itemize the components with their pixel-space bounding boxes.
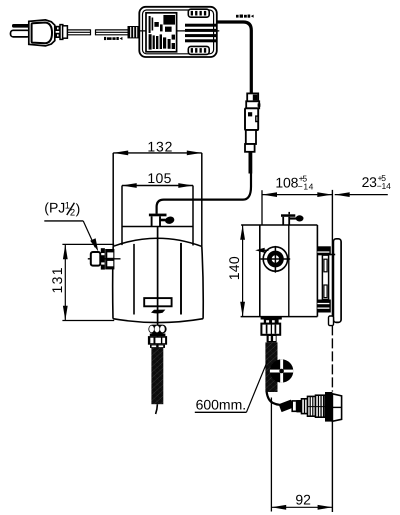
adapter heat fins: [185, 24, 217, 43]
sensor head flange: [325, 392, 332, 422]
svg-text:2: 2: [70, 208, 75, 219]
side gland connector blob: [290, 217, 296, 219]
PJ fitting washer: [101, 248, 105, 269]
front cable gland: [149, 214, 167, 217]
wall line: [331, 190, 333, 326]
power cord segment 2: [96, 29, 129, 35]
inlet flow arrow: [264, 249, 269, 251]
adapter seam line: [139, 30, 219, 32]
output cord marking text: [236, 15, 254, 18]
AC adapter U1 outer shell: [139, 7, 217, 57]
dim 140 line: [242, 225, 244, 317]
svg-text:(PJ: (PJ: [44, 200, 65, 216]
sensor head block 2: [316, 395, 326, 417]
dim 132 arrows: [113, 151, 128, 156]
svg-text:140: 140: [226, 256, 242, 280]
plug cord barrel: [60, 25, 63, 40]
dim 105 arrows: [122, 183, 137, 188]
tank highlight lines: [133, 244, 135, 315]
side body right edge: [316, 225, 318, 317]
adapter label: [146, 13, 177, 52]
AC adapter inner shell line: [143, 10, 214, 54]
dim 23 line: [335, 194, 388, 196]
tank center cable line: [157, 227, 159, 348]
plug P1 bottom prong: [11, 30, 31, 37]
svg-text:105: 105: [147, 170, 171, 186]
cable below connector thick: [248, 152, 252, 174]
svg-text:−14: −14: [377, 181, 391, 191]
tank sides: [112, 246, 115, 318]
tank label plate: [144, 298, 171, 306]
svg-text:23: 23: [362, 174, 378, 190]
plug strain relief ribs: [56, 27, 59, 31]
sensor head rings: [292, 401, 296, 411]
svg-text:132: 132: [147, 138, 172, 154]
outlet lower ring: [150, 345, 165, 348]
front view cover box: [113, 152, 202, 154]
svg-text:): ): [76, 201, 81, 217]
side center line: [270, 317, 272, 342]
inline connector J1: [247, 93, 258, 101]
PJ fitting stub: [91, 252, 101, 266]
adapter top vent: [188, 9, 209, 17]
svg-text:108: 108: [275, 175, 298, 191]
dim 131 extension lines: [62, 243, 114, 245]
side outlet flange: [261, 317, 282, 320]
front view inner bracket box: [122, 185, 193, 187]
tank shoulder curve: [113, 238, 202, 246]
dim 131 line: [64, 244, 66, 320]
front hose tail: [156, 404, 158, 414]
side body top edge: [241, 224, 317, 226]
sensor head cable curve: [267, 392, 280, 405]
label underline: [44, 220, 83, 222]
side outlet threads: [264, 320, 279, 324]
side cable gland: [281, 214, 295, 217]
side outlet coupler: [267, 335, 277, 343]
sensor head tip: [279, 400, 294, 413]
bracket lower bar: [317, 300, 330, 313]
PJ fitting nut: [105, 249, 114, 269]
inlet circle assembly: [263, 247, 287, 271]
side body bottom edge: [241, 316, 318, 318]
svg-text:600mm.: 600mm.: [196, 396, 247, 412]
outlet coupling rings: [148, 325, 166, 334]
power cord segment 1: [67, 29, 90, 35]
outlet hex nut: [148, 336, 167, 345]
bracket strip: [322, 255, 328, 299]
side body left edge: [259, 225, 261, 317]
dim 108 extension line: [261, 190, 263, 225]
wall mounting plate: [333, 239, 341, 323]
cord marking text: [104, 37, 122, 40]
plug P1 top prong: [12, 24, 30, 28]
side hose braided: [265, 342, 277, 392]
side outlet nut: [261, 324, 280, 335]
adapter label print: [149, 15, 175, 50]
svg-text:−14: −14: [298, 181, 314, 191]
label smudge: [151, 310, 165, 314]
PJ fitting centerline: [88, 258, 121, 260]
sensor head block 1: [308, 396, 316, 416]
sensor head cone: [332, 394, 341, 422]
dim 108 line: [262, 194, 332, 196]
outlet transition: [150, 334, 166, 337]
hose clamp: [270, 359, 293, 382]
label leader: [83, 221, 95, 247]
svg-text:131: 131: [49, 267, 65, 293]
tank bottom curve: [113, 319, 203, 323]
svg-text:92: 92: [295, 491, 311, 507]
output cord from adapter: [217, 22, 252, 93]
bracket upper bar: [317, 246, 330, 255]
cable routed to controller: [157, 174, 251, 214]
adapter bottom vent: [188, 46, 209, 54]
front gland connector blob: [160, 219, 166, 222]
side body seam: [288, 225, 290, 317]
front hose braided: [151, 348, 163, 405]
plug P1 body: [29, 20, 55, 46]
adapter input strain relief: [128, 26, 141, 38]
dim 92 line: [271, 506, 332, 508]
